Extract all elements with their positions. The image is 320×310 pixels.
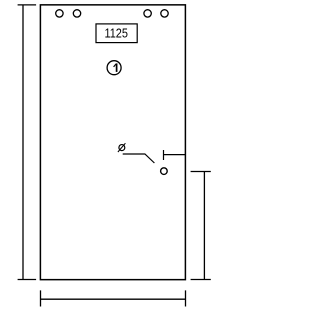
svg-text:1125: 1125 <box>104 25 128 40</box>
